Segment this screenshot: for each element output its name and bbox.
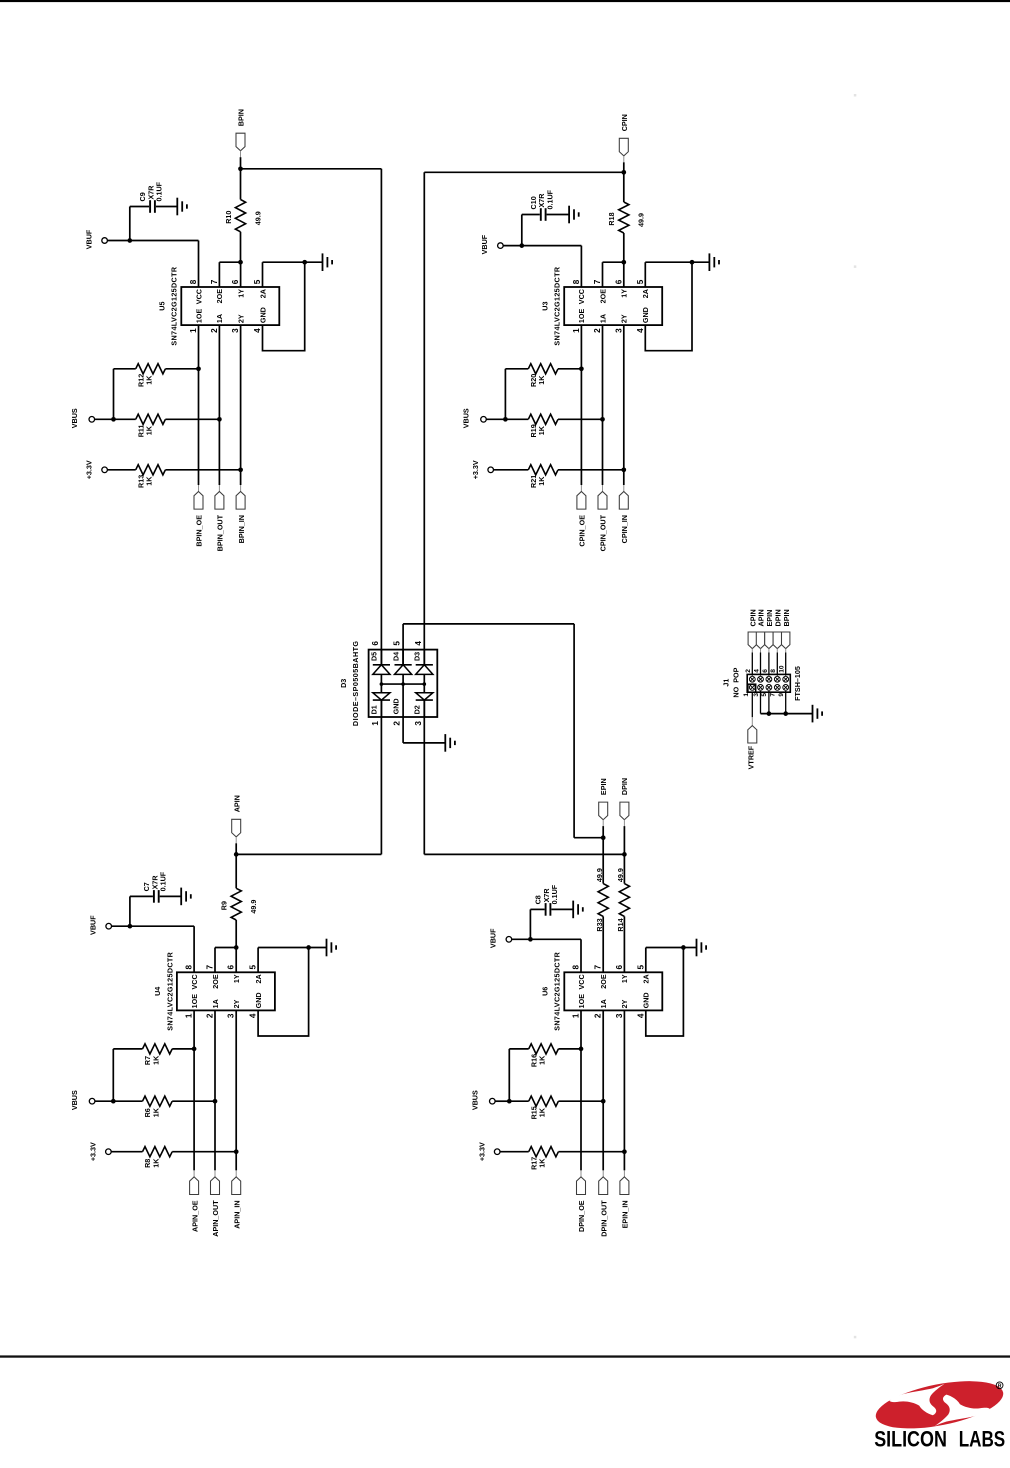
svg-text:2OE: 2OE xyxy=(598,289,607,304)
svg-text:APIN_IN: APIN_IN xyxy=(232,1200,241,1228)
svg-text:BPIN: BPIN xyxy=(237,109,246,126)
svg-text:VTREF: VTREF xyxy=(747,745,756,769)
svg-text:EPIN: EPIN xyxy=(599,778,608,795)
svg-text:2Y: 2Y xyxy=(236,314,245,323)
svg-text:1K: 1K xyxy=(537,476,546,486)
svg-text:2Y: 2Y xyxy=(620,314,629,323)
svg-text:7: 7 xyxy=(593,279,602,284)
svg-text:1Y: 1Y xyxy=(620,974,629,983)
svg-text:U4: U4 xyxy=(153,987,162,996)
svg-text:R: R xyxy=(998,1384,1002,1390)
svg-text:R18: R18 xyxy=(607,212,616,225)
svg-text:NO POP: NO POP xyxy=(732,667,741,697)
svg-text:7: 7 xyxy=(210,279,219,284)
svg-text:3: 3 xyxy=(227,1013,236,1018)
svg-text:+3.3V: +3.3V xyxy=(477,1142,486,1161)
svg-text:1OE: 1OE xyxy=(577,309,586,324)
svg-text:VCC: VCC xyxy=(577,974,586,989)
svg-text:1A: 1A xyxy=(215,314,224,323)
svg-text:7: 7 xyxy=(594,965,603,970)
svg-text:1K: 1K xyxy=(145,425,154,435)
svg-text:9: 9 xyxy=(778,693,785,697)
svg-text:5: 5 xyxy=(253,279,262,284)
svg-text:SN74LVC2G125DCTR: SN74LVC2G125DCTR xyxy=(553,266,562,345)
svg-text:10: 10 xyxy=(779,665,786,673)
svg-text:VBUS: VBUS xyxy=(470,1090,479,1110)
svg-text:1K: 1K xyxy=(151,1158,160,1168)
svg-text:VCC: VCC xyxy=(577,289,586,304)
svg-text:VCC: VCC xyxy=(190,974,199,989)
svg-text:CPIN_IN: CPIN_IN xyxy=(620,515,629,543)
svg-text:8: 8 xyxy=(572,279,581,284)
svg-text:BPIN_OE: BPIN_OE xyxy=(195,515,204,547)
svg-text:R9: R9 xyxy=(220,901,229,910)
svg-text:4: 4 xyxy=(636,328,645,333)
svg-text:1K: 1K xyxy=(151,1055,160,1065)
svg-text:VBUF: VBUF xyxy=(89,915,98,935)
svg-text:1Y: 1Y xyxy=(236,289,245,298)
svg-text:6: 6 xyxy=(231,279,240,284)
svg-text:U3: U3 xyxy=(541,301,550,310)
svg-text:6: 6 xyxy=(371,641,380,646)
svg-text:1K: 1K xyxy=(538,1158,547,1168)
svg-text:2: 2 xyxy=(393,721,402,726)
svg-text:7: 7 xyxy=(770,693,777,697)
svg-text:+3.3V: +3.3V xyxy=(471,460,480,479)
svg-text:SN74LVC2G125DCTR: SN74LVC2G125DCTR xyxy=(170,266,179,345)
svg-text:GND: GND xyxy=(391,698,400,714)
svg-text:VBUS: VBUS xyxy=(70,1090,79,1110)
svg-text:6: 6 xyxy=(615,965,624,970)
svg-text:7: 7 xyxy=(206,965,215,970)
svg-text:GND: GND xyxy=(641,307,650,323)
svg-text:2OE: 2OE xyxy=(215,289,224,304)
svg-text:VBUF: VBUF xyxy=(489,928,498,948)
svg-text:49.9: 49.9 xyxy=(595,868,604,882)
svg-text:49.9: 49.9 xyxy=(616,868,625,882)
svg-text:5: 5 xyxy=(761,693,768,697)
svg-text:GND: GND xyxy=(642,992,651,1008)
svg-text:DIODE–SP0505BAHTG: DIODE–SP0505BAHTG xyxy=(351,641,360,727)
svg-text:VBUS: VBUS xyxy=(462,408,471,428)
svg-text:2Y: 2Y xyxy=(620,999,629,1008)
svg-text:0.1UF: 0.1UF xyxy=(545,189,554,209)
svg-text:1A: 1A xyxy=(598,314,607,323)
svg-text:2: 2 xyxy=(210,328,219,333)
svg-text:8: 8 xyxy=(572,965,581,970)
svg-text:+3.3V: +3.3V xyxy=(89,1142,98,1161)
svg-text:2A: 2A xyxy=(258,289,267,298)
svg-text:+3.3V: +3.3V xyxy=(85,460,94,479)
svg-text:49.9: 49.9 xyxy=(253,211,262,225)
svg-text:5: 5 xyxy=(636,279,645,284)
svg-text:1: 1 xyxy=(189,328,198,333)
svg-text:EPIN_IN: EPIN_IN xyxy=(621,1200,630,1228)
svg-text:BPIN_OUT: BPIN_OUT xyxy=(216,514,225,551)
svg-text:D3: D3 xyxy=(413,652,422,661)
svg-text:5: 5 xyxy=(636,965,645,970)
svg-text:GND: GND xyxy=(254,992,263,1008)
svg-text:49.9: 49.9 xyxy=(637,213,646,227)
svg-text:0.1UF: 0.1UF xyxy=(550,884,559,904)
svg-text:U5: U5 xyxy=(158,301,167,310)
svg-text:6: 6 xyxy=(614,279,623,284)
svg-text:2Y: 2Y xyxy=(232,999,241,1008)
svg-text:6: 6 xyxy=(227,965,236,970)
svg-text:1A: 1A xyxy=(599,999,608,1008)
svg-text:GND: GND xyxy=(258,307,267,323)
svg-text:2A: 2A xyxy=(641,289,650,298)
svg-text:SILICON: SILICON xyxy=(874,1426,947,1451)
svg-text:D3: D3 xyxy=(339,679,348,688)
svg-text:1OE: 1OE xyxy=(190,994,199,1009)
svg-text:2OE: 2OE xyxy=(599,974,608,989)
svg-text:3: 3 xyxy=(414,721,423,726)
svg-text:1K: 1K xyxy=(151,1107,160,1117)
svg-text:2A: 2A xyxy=(254,974,263,983)
svg-text:FTSH–105: FTSH–105 xyxy=(793,666,802,701)
svg-text:D5: D5 xyxy=(370,652,379,661)
svg-text:CPIN_OE: CPIN_OE xyxy=(578,515,587,547)
svg-text:CPIN: CPIN xyxy=(620,114,629,131)
svg-text:3: 3 xyxy=(615,1013,624,1018)
svg-text:D1: D1 xyxy=(370,705,379,714)
svg-text:1K: 1K xyxy=(145,476,154,486)
svg-text:2: 2 xyxy=(593,328,602,333)
svg-text:DPIN_OUT: DPIN_OUT xyxy=(599,1200,608,1237)
svg-text:VBUF: VBUF xyxy=(480,234,489,254)
svg-text:APIN: APIN xyxy=(232,795,241,812)
svg-text:2OE: 2OE xyxy=(211,974,220,989)
svg-text:APIN_OE: APIN_OE xyxy=(190,1200,199,1232)
svg-text:4: 4 xyxy=(636,1013,645,1018)
svg-text:4: 4 xyxy=(249,1013,258,1018)
svg-text:4: 4 xyxy=(253,328,262,333)
svg-text:D4: D4 xyxy=(391,652,400,661)
svg-text:VCC: VCC xyxy=(194,289,203,304)
svg-text:5: 5 xyxy=(393,641,402,646)
svg-text:8: 8 xyxy=(189,279,198,284)
svg-text:R10: R10 xyxy=(224,211,233,224)
svg-text:8: 8 xyxy=(185,965,194,970)
svg-text:1K: 1K xyxy=(538,1107,547,1117)
svg-text:1A: 1A xyxy=(211,999,220,1008)
svg-text:2: 2 xyxy=(745,669,752,673)
svg-text:1: 1 xyxy=(743,693,750,697)
svg-text:R33: R33 xyxy=(595,918,604,931)
svg-text:CPIN_OUT: CPIN_OUT xyxy=(599,514,608,551)
svg-text:1Y: 1Y xyxy=(232,974,241,983)
svg-text:VBUF: VBUF xyxy=(84,229,93,249)
svg-text:D2: D2 xyxy=(413,705,422,714)
svg-text:3: 3 xyxy=(231,328,240,333)
svg-text:R14: R14 xyxy=(616,918,625,931)
svg-text:1K: 1K xyxy=(537,375,546,385)
svg-text:3: 3 xyxy=(614,328,623,333)
svg-text:LABS: LABS xyxy=(959,1426,1006,1451)
svg-text:5: 5 xyxy=(249,965,258,970)
svg-text:1Y: 1Y xyxy=(620,289,629,298)
svg-text:3: 3 xyxy=(753,693,760,697)
svg-text:BPIN_IN: BPIN_IN xyxy=(237,515,246,543)
svg-text:VBUS: VBUS xyxy=(70,408,79,428)
svg-text:DPIN: DPIN xyxy=(620,778,629,795)
svg-text:APIN_OUT: APIN_OUT xyxy=(211,1200,220,1237)
svg-text:1: 1 xyxy=(185,1013,194,1018)
svg-text:0.1UF: 0.1UF xyxy=(155,181,164,201)
svg-text:U6: U6 xyxy=(541,987,550,996)
svg-text:1: 1 xyxy=(572,1013,581,1018)
svg-text:2: 2 xyxy=(594,1013,603,1018)
svg-text:DPIN_OE: DPIN_OE xyxy=(577,1200,586,1232)
svg-text:1: 1 xyxy=(572,328,581,333)
svg-text:1OE: 1OE xyxy=(577,994,586,1009)
svg-text:6: 6 xyxy=(762,669,769,673)
svg-text:2: 2 xyxy=(206,1013,215,1018)
svg-text:1K: 1K xyxy=(538,1055,547,1065)
svg-text:4: 4 xyxy=(753,669,760,673)
svg-text:1: 1 xyxy=(371,721,380,726)
svg-text:SN74LVC2G125DCTR: SN74LVC2G125DCTR xyxy=(553,951,562,1030)
svg-text:1K: 1K xyxy=(145,375,154,385)
svg-text:BPIN: BPIN xyxy=(782,609,791,626)
svg-text:49.9: 49.9 xyxy=(249,900,258,914)
svg-text:J1: J1 xyxy=(722,679,731,687)
svg-text:1K: 1K xyxy=(537,425,546,435)
svg-text:0.1UF: 0.1UF xyxy=(159,871,168,891)
svg-text:8: 8 xyxy=(770,669,777,673)
svg-text:SN74LVC2G125DCTR: SN74LVC2G125DCTR xyxy=(165,951,174,1030)
svg-text:4: 4 xyxy=(414,641,423,646)
svg-text:1OE: 1OE xyxy=(194,309,203,324)
svg-text:2A: 2A xyxy=(642,974,651,983)
